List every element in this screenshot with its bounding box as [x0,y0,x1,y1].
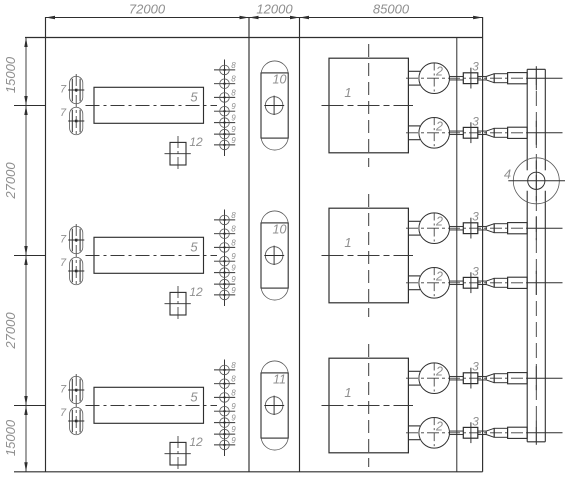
svg-text:3: 3 [472,60,479,74]
frame left edge / wall [45,17,47,472]
section divider wall x=299.5 [299,17,301,472]
svg-text:7: 7 [60,234,67,246]
link bar 2 upper row2 [478,225,486,227]
svg-text:7: 7 [60,107,67,119]
switch 3 lower row1 [463,127,478,138]
svg-text:9: 9 [231,436,236,445]
bus cross mark lower row1 [535,121,537,145]
fan 7 centerline row2 [75,224,77,287]
svg-text:8: 8 [231,75,236,84]
feeder centerline upper row2 [406,227,527,229]
svg-text:9: 9 [231,264,236,273]
transformer 1 row3 vertical centerline [368,344,370,467]
row 3 centerline [86,405,218,407]
svg-text:12000: 12000 [256,2,293,17]
transformer 1 row3 [329,358,408,453]
switch 3 upper row3 [463,373,478,384]
busbar centerline [535,70,537,442]
bus cross mark lower row2 [535,271,537,295]
busbar right edge upper [544,69,546,170]
left dimension line [25,38,27,472]
bushing cylinder upper row3 [494,374,507,383]
cell 11 row3 machine circle [265,397,283,415]
svg-text:5: 5 [190,240,198,255]
building 5 row2 [94,237,204,273]
frame bottom edge [14,471,483,473]
transformer stub upper row1 [408,70,420,72]
svg-text:9: 9 [231,114,236,123]
bus cross mark lower row3 [535,421,537,445]
svg-text:9: 9 [231,425,236,434]
feeder centerline lower row2 [406,282,527,284]
transformer stub lower row1 [408,125,420,127]
link bar 2 lower row1 [478,130,486,132]
transformer 1 row2 [329,208,408,303]
bushing flange upper row2 [508,223,527,234]
section divider wall x=249 [248,17,250,472]
svg-text:3: 3 [472,114,479,128]
svg-text:9: 9 [231,136,236,145]
transformer stub upper row2 [408,220,420,222]
link bar 2 lower row2 [478,280,486,282]
svg-text:5: 5 [190,390,198,405]
svg-text:7: 7 [60,407,67,419]
building 5 row1 [94,87,204,123]
mast 8 row3.2 [214,383,235,385]
transformer 1 row3 horizontal centerline [322,405,414,407]
svg-text:27000: 27000 [3,162,18,200]
svg-text:1: 1 [344,85,351,100]
frame top edge [25,37,483,39]
transformer stub upper row3 [408,370,420,372]
svg-text:72000: 72000 [129,2,166,17]
svg-text:2: 2 [435,215,443,229]
mast column line row3 [224,360,226,457]
fan 7 upper row1 [70,76,83,104]
bus crossing line upper row1 [527,77,562,79]
bus cross mark upper row2 [535,216,537,240]
apparatus 2 lower row2 [419,268,450,299]
svg-text:7: 7 [60,257,67,269]
cell 10 row1 body [261,73,288,138]
switch 3 upper row2 [463,223,478,234]
bushing cylinder lower row3 [494,428,507,437]
svg-text:8: 8 [231,88,236,97]
mast 9 row3.5 [214,422,235,424]
svg-text:10: 10 [273,73,287,87]
bushing cone lower row3 [486,428,494,431]
bushing cone upper row2 [486,224,494,227]
mast 8 row2.1 [214,219,235,221]
svg-text:8: 8 [231,211,236,220]
svg-text:85000: 85000 [373,2,410,17]
mast 9 row2.5 [214,272,235,274]
svg-text:9: 9 [231,402,236,411]
mast 8 row3.1 [214,369,235,371]
feeder centerline lower row1 [406,132,527,134]
mast 9 row1.4 [214,110,235,112]
bushing flange lower row1 [508,127,527,138]
busbar right edge lower [544,191,546,442]
svg-text:9: 9 [231,125,236,134]
svg-text:3: 3 [472,210,479,224]
svg-text:3: 3 [472,360,479,374]
bus crossing line lower row1 [527,132,562,134]
mast 9 row1.5 [214,122,235,124]
apparatus 2 upper row2 [419,213,450,244]
svg-text:3: 3 [472,264,479,278]
svg-text:7: 7 [60,384,67,396]
transformer stub lower row2 [408,275,420,277]
bus crossing line upper row3 [527,377,562,379]
cell 10 row2 machine circle [265,247,283,265]
svg-text:2: 2 [435,419,443,433]
busbar bottom edge [527,441,545,443]
mast 9 row2.4 [214,260,235,262]
transformer stub lower row3 [408,425,420,427]
svg-text:8: 8 [231,238,236,247]
mast 9 row1.6 [214,133,235,135]
busbar top edge [527,68,545,70]
transformer 1 row2 vertical centerline [368,194,370,317]
bushing cylinder upper row1 [494,74,507,83]
building 5 row3 [94,387,204,423]
link bar lower row2 [450,280,464,282]
svg-text:7: 7 [60,84,67,96]
svg-text:9: 9 [231,275,236,284]
machine 4 inner circle [528,172,545,189]
bus cross mark upper row1 [535,66,537,90]
link bar upper row1 [450,75,464,77]
link bar 2 lower row3 [478,430,486,432]
bushing cone upper row1 [486,74,494,77]
mast 9 row3.4 [214,410,235,412]
bus crossing line upper row2 [527,227,562,229]
link bar upper row3 [450,375,464,377]
svg-text:11: 11 [273,373,286,387]
mast 8 row3.3 [214,396,235,398]
fan 7 lower row2 [70,257,83,285]
switch 3 upper row1 [463,73,478,84]
mast 9 row3.6 [214,433,235,435]
switch 3 lower row2 [463,277,478,288]
fan 7 centerline row1 [75,74,77,137]
apparatus 2 lower row1 [419,118,450,149]
row tick y=255.5 [14,255,46,257]
inner wall line x=456.8 [456,38,458,472]
svg-text:12: 12 [189,435,203,449]
bus cross mark upper row3 [535,366,537,390]
svg-text:10: 10 [273,223,287,237]
bushing flange lower row3 [508,427,527,438]
mast 8 row1.1 [214,69,235,71]
svg-text:8: 8 [231,361,236,370]
svg-text:8: 8 [231,61,236,70]
transformer 1 row1 [329,58,408,153]
transformer 1 row1 vertical centerline [368,44,370,167]
link bar lower row3 [450,430,464,432]
transformer 1 row1 horizontal centerline [322,105,414,107]
svg-text:9: 9 [231,414,236,423]
switch 3 lower row3 [463,427,478,438]
cell 10 row1 machine circle [265,97,283,115]
mast 8 row1.2 [214,83,235,85]
svg-text:2: 2 [435,65,443,79]
svg-text:8: 8 [231,225,236,234]
mast column line row1 [224,60,226,157]
cell 11 row3 body [261,373,288,438]
bushing flange upper row1 [508,73,527,84]
unit 12 row2 [170,292,186,315]
bushing cone upper row3 [486,374,494,377]
row tick y=105.5 [14,105,46,107]
bushing cone lower row2 [486,278,494,281]
fan 7 lower row1 [70,107,83,134]
svg-text:3: 3 [472,414,479,428]
bushing cylinder lower row2 [494,278,507,287]
svg-text:1: 1 [344,235,351,250]
frame right edge x=482.6 [482,17,484,472]
mast 9 row1.7 [214,144,235,146]
mast 8 row2.3 [214,246,235,248]
svg-text:5: 5 [190,90,198,105]
svg-text:27000: 27000 [3,312,18,350]
busbar left edge upper [526,69,528,170]
mast 8 row2.2 [214,233,235,235]
svg-text:9: 9 [231,252,236,261]
bus crossing line lower row2 [527,282,562,284]
bushing flange lower row2 [508,277,527,288]
link bar upper row2 [450,225,464,227]
apparatus 2 lower row3 [419,418,450,449]
svg-text:4: 4 [504,167,511,182]
bushing flange upper row3 [508,373,527,384]
link bar 2 upper row3 [478,375,486,377]
feeder centerline upper row3 [406,377,527,379]
fan 7 centerline row3 [75,374,77,437]
svg-text:1: 1 [344,385,351,400]
machine 4 horizontal axis [508,180,565,182]
svg-text:12: 12 [189,285,203,299]
unit 12 row3 [170,442,186,465]
unit 12 row1 [170,142,186,165]
svg-text:9: 9 [231,286,236,295]
apparatus 2 upper row3 [419,363,450,394]
row 2 centerline [86,255,218,257]
svg-text:12: 12 [189,135,203,149]
mast 8 row1.3 [214,96,235,98]
svg-text:9: 9 [231,102,236,111]
apparatus 2 upper row1 [419,63,450,94]
svg-text:8: 8 [231,388,236,397]
row 1 centerline [86,105,218,107]
transformer 1 row2 horizontal centerline [322,255,414,257]
bushing cone lower row1 [486,128,494,131]
mast 9 row3.7 [214,444,235,446]
machine 4 outer circle [513,158,559,204]
svg-text:2: 2 [435,119,443,133]
fan 7 lower row3 [70,407,83,434]
svg-text:15000: 15000 [3,56,18,93]
fan 7 upper row2 [70,226,83,253]
mast 9 row2.6 [214,283,235,285]
svg-text:8: 8 [231,375,236,384]
feeder centerline lower row3 [406,432,527,434]
feeder centerline upper row1 [406,77,527,79]
mast column line row2 [224,210,226,307]
fan 7 upper row3 [70,376,83,404]
bushing cylinder lower row1 [494,128,507,137]
mast 9 row2.7 [214,294,235,296]
link bar 2 upper row1 [478,75,486,77]
cell 10 row2 body [261,223,288,288]
bushing cylinder upper row2 [494,224,507,233]
svg-text:2: 2 [435,269,443,283]
svg-text:2: 2 [435,365,443,379]
link bar lower row1 [450,130,464,132]
machine 4 vertical axis [535,160,537,201]
top dimension line [46,17,483,19]
row tick y=405.5 [14,405,46,407]
bus crossing line lower row3 [527,432,562,434]
busbar left edge lower [526,191,528,442]
svg-text:15000: 15000 [3,419,18,456]
